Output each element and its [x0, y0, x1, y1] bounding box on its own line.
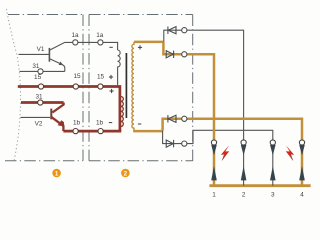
- svg-text:V1: V1: [37, 46, 45, 53]
- terminal node 1b left: [73, 129, 78, 134]
- transformer core: [125, 53, 127, 118]
- spark plug 2 terminal: [241, 140, 246, 145]
- spark plug 2 electrode column: [243, 145, 245, 186]
- svg-text:1b: 1b: [96, 119, 104, 126]
- terminal node 15 first: [38, 84, 43, 89]
- torn-edge break line: [7, 9, 21, 161]
- diode D1: [168, 27, 176, 34]
- spark plug 3 terminal: [270, 140, 275, 145]
- polarity minus secondary bottom: [138, 123, 141, 125]
- spark plug 3 lower electrode: [270, 166, 276, 180]
- terminal node 15 third: [98, 84, 103, 89]
- spark plug 4 terminal: [299, 140, 304, 145]
- boundary box unit 2 right edge: [192, 15, 194, 162]
- terminal diode D4: [182, 141, 187, 146]
- polarity plus primary 1 bottom: [109, 75, 113, 79]
- spark flash cylinder 4: [286, 146, 294, 161]
- wire 1a: [73, 42, 118, 50]
- terminal node 1a right: [98, 40, 103, 45]
- secondary winding: [132, 42, 134, 131]
- wire 31 (upper): [20, 70, 65, 72]
- ground bus bar: [209, 184, 310, 187]
- wire 15 (battery +) and primary winding 2 frame: [18, 87, 120, 132]
- svg-text:2: 2: [242, 191, 246, 198]
- svg-text:15: 15: [97, 73, 105, 80]
- boundary box unit 2 top: [89, 14, 193, 16]
- svg-text:3: 3: [271, 191, 275, 198]
- wire diode D2 branch (orange) to plug 1: [163, 42, 214, 140]
- wire 1b: [63, 130, 121, 133]
- svg-text:1b: 1b: [73, 119, 81, 126]
- boundary box unit 2 bottom: [89, 160, 193, 162]
- spark plug 1 lower electrode: [211, 166, 217, 180]
- transistor V2: [51, 103, 64, 132]
- terminal node 15 second: [73, 84, 78, 89]
- svg-text:1: 1: [212, 191, 216, 198]
- primary winding 2 (red, 1b side): [121, 97, 124, 127]
- spark flash cylinder 1: [221, 146, 229, 161]
- spark plug 4 lower electrode: [299, 166, 305, 180]
- diode D2: [166, 51, 173, 58]
- terminal diode D3: [182, 116, 187, 121]
- spark plug 3 electrode column: [272, 145, 274, 186]
- wire diode D3 branch (orange) to plug 4: [163, 119, 302, 140]
- svg-text:15: 15: [34, 74, 42, 81]
- spark plug 2 upper electrode: [241, 145, 247, 156]
- spark plug 3 upper electrode: [270, 145, 276, 156]
- boundary box unit 1 bottom: [5, 160, 83, 162]
- polarity plus secondary top: [138, 45, 142, 49]
- svg-text:15: 15: [73, 73, 81, 80]
- svg-text:V2: V2: [35, 120, 43, 127]
- diode D3: [168, 115, 176, 122]
- svg-text:1a: 1a: [96, 32, 104, 39]
- wire diode D4 branch (gray) to plug 3: [163, 130, 273, 143]
- diode D4: [166, 140, 173, 147]
- polarity plus primary 2 top: [110, 89, 114, 93]
- wire 31 (lower red): [21, 101, 64, 104]
- svg-text:31: 31: [35, 93, 43, 100]
- wire V2 base: [21, 116, 51, 118]
- polarity minus primary 2 bottom: [109, 122, 112, 124]
- terminal node 31 lower: [38, 100, 43, 105]
- spark plug 4 electrode column: [301, 145, 304, 186]
- spark plug 2 lower electrode: [241, 166, 247, 180]
- callout 1: [52, 169, 61, 178]
- svg-text:1a: 1a: [71, 32, 79, 39]
- terminal diode D1: [182, 28, 187, 33]
- spark plug 1 terminal: [211, 140, 216, 145]
- boundary box unit 2 left edge: [88, 15, 90, 161]
- spark plug 1 electrode column: [213, 145, 216, 186]
- terminal node 31 upper: [38, 69, 43, 74]
- terminal node 1b right: [98, 129, 103, 134]
- svg-text:1: 1: [55, 170, 59, 177]
- wire V1 base: [19, 53, 50, 55]
- primary winding 1 (gray, 1a side): [118, 50, 121, 85]
- boundary box unit 1 top: [8, 14, 83, 16]
- polarity minus primary 1 top: [109, 46, 112, 48]
- spark plug 4 upper electrode: [299, 145, 305, 156]
- wire secondary top to diode junction: [134, 41, 163, 44]
- svg-text:2: 2: [124, 170, 128, 177]
- terminal node 1a left: [73, 40, 78, 45]
- spark plug 1 upper electrode: [211, 145, 217, 156]
- wire secondary bottom to diode junction: [133, 130, 162, 133]
- boundary box unit 1 right edge: [82, 15, 84, 161]
- svg-text:4: 4: [300, 191, 304, 198]
- terminal diode D2: [182, 52, 187, 57]
- callout 2: [121, 169, 130, 178]
- wire diode D1 branch (gray) to plug 2: [164, 30, 244, 140]
- transistor V1: [49, 42, 73, 71]
